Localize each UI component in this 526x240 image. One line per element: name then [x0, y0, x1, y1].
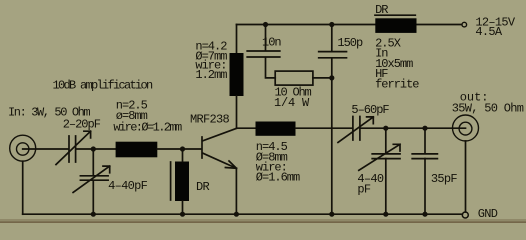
svg-text:10n: 10n [262, 36, 281, 50]
label: out: 35W, 50 Ohm [452, 90, 524, 115]
svg-text:1/4 W: 1/4 W [274, 96, 310, 110]
inductor DR2 supply choke [375, 18, 416, 33]
title label: 10dB amplification [53, 79, 154, 93]
svg-text:35W, 50 Ohm: 35W, 50 Ohm [452, 102, 524, 116]
trimmer capacitor C1 2-20pF [56, 131, 91, 164]
wire: input connector to C1 [23, 148, 69, 150]
svg-text:pF: pF [357, 183, 371, 197]
junction dot: input matching node [91, 146, 96, 151]
wire: L1 to transistor base [157, 148, 201, 150]
value label 150p [337, 36, 363, 50]
connector J2 output [453, 115, 479, 141]
connector J1 input [10, 135, 36, 161]
wire: top supply rail [237, 24, 462, 26]
label: In: 3W, 50 Ohm [8, 105, 90, 119]
capacitor 10n [247, 51, 280, 57]
inductor L3 n=4.5 output [256, 122, 296, 136]
value label 10n [262, 36, 281, 50]
value label DR1 [196, 180, 210, 194]
wire: C1 to L1 [76, 148, 116, 150]
svg-text:150p: 150p [337, 36, 363, 50]
wire: output connector ground lead [465, 141, 467, 212]
svg-text:4.5A: 4.5A [475, 25, 503, 39]
wire: bottom ground rail [23, 213, 463, 215]
inductor L2 n=4.2 collector choke [230, 53, 244, 96]
junction dot: resistor to 150p ground line [329, 75, 334, 80]
value label inductor L3 [256, 140, 300, 184]
junction dot: emitter at bottom rail [234, 212, 239, 217]
svg-text:35pF: 35pF [431, 172, 458, 186]
wire: 10n top lead [265, 25, 267, 51]
wire: 150p top lead [331, 25, 333, 51]
value label supply choke 2.5X In 10x5mm HF ferrite [375, 36, 419, 91]
inductor L1 n=2.5 input [116, 142, 158, 158]
value label 10 Ohm 1/4 W [274, 86, 312, 110]
node: supply terminal 12-15V [462, 22, 467, 27]
svg-text:wire:Ø=1.2mm: wire:Ø=1.2mm [113, 120, 182, 134]
wire: DR1 bottom lead [182, 201, 184, 214]
resistor 10 Ohm [275, 71, 313, 85]
value label inductor L2 [195, 39, 227, 82]
svg-text:10dB amplification: 10dB amplification [53, 79, 154, 93]
wire: input connector ground lead [22, 161, 24, 214]
junction dot: 10n on supply rail [263, 22, 268, 27]
value label 2-20pF [63, 118, 101, 132]
wire: collector node to L3 [237, 127, 256, 129]
net label GND [478, 207, 498, 221]
junction dot: DR1 at bottom rail [180, 212, 185, 217]
svg-text:ferrite: ferrite [375, 78, 419, 92]
junction dot: output node C4 [383, 126, 388, 131]
wire: 150p ground line down to bottom rail [331, 58, 333, 214]
junction dot: C2 at bottom rail [91, 212, 96, 217]
part label MRF238 [190, 112, 230, 126]
wire: emitter to bottom rail [235, 168, 237, 214]
inductor DR1 base choke [171, 162, 189, 202]
value label 4-40 pF [357, 172, 384, 197]
capacitor 150p [319, 52, 347, 58]
svg-text:GND: GND [478, 207, 498, 221]
value label DR (underlined) [375, 3, 415, 17]
svg-text:MRF238: MRF238 [190, 112, 230, 126]
wire: collector vertical from rail to L2 [236, 25, 238, 54]
junction dot: C4 at bottom rail [383, 212, 388, 217]
junction dot: output node C5 [422, 126, 427, 131]
svg-text:4–40pF: 4–40pF [108, 179, 148, 193]
capacitor C5 35pF [412, 128, 437, 214]
svg-text:5–60pF: 5–60pF [351, 103, 389, 117]
ground terminal GND [462, 212, 468, 218]
svg-text:DR: DR [196, 180, 210, 194]
trimmer capacitor C4 4-40pF output shunt [359, 128, 400, 214]
wire: L3 to C3 [296, 127, 353, 129]
junction dot: 150p line at bottom rail [329, 212, 334, 217]
value label 35pF [431, 172, 458, 186]
value label 12-15V 4.5A [475, 15, 516, 39]
value label 5-60pF [351, 103, 389, 117]
wire: resistor right lead [313, 77, 332, 79]
trimmer capacitor C3 5-60pF series [338, 117, 373, 143]
transistor Q1 MRF238 [202, 128, 237, 168]
svg-text:1.2mm: 1.2mm [195, 68, 227, 82]
junction dot: 150p on supply rail [329, 22, 334, 27]
wire: L2 bottom to collector node [236, 96, 238, 128]
svg-text:Ø=1.6mm: Ø=1.6mm [256, 171, 300, 185]
wire: DR1 top lead [182, 149, 184, 162]
junction dot: base node [180, 146, 185, 151]
junction dot: C5 at bottom rail [422, 212, 427, 217]
wire: C3 to output connector [361, 127, 466, 129]
value label inductor L1 [113, 99, 182, 135]
trimmer capacitor C2 4-40pF input shunt [73, 149, 110, 214]
wire: 10n bottom lead to resistor [266, 58, 276, 78]
value label 4-40pF [108, 179, 148, 193]
svg-text:2–20pF: 2–20pF [63, 118, 101, 132]
